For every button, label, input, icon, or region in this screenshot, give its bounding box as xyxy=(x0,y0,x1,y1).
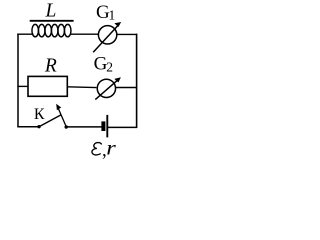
wire resistor to G2 xyxy=(67,86,96,89)
galvanometer G1 xyxy=(93,22,121,52)
wire bottom-left (to switch) xyxy=(17,126,38,128)
label R xyxy=(44,56,57,77)
wire mid-left (to resistor) xyxy=(17,85,28,87)
label G1 xyxy=(96,2,115,23)
svg-text:L: L xyxy=(44,1,56,22)
switch K xyxy=(37,104,68,129)
wire top-left (to inductor) xyxy=(17,33,33,35)
inductor L xyxy=(30,21,74,37)
wire battery to right vertical xyxy=(108,126,137,128)
svg-text:r: r xyxy=(106,137,116,159)
wire switch to battery xyxy=(66,126,101,128)
label K xyxy=(34,106,45,123)
label L xyxy=(44,1,56,22)
wire inductor to G1 xyxy=(71,33,98,35)
resistor R xyxy=(28,76,67,96)
label G2 xyxy=(94,54,113,75)
label E, r (script E drawn as path) xyxy=(92,137,116,161)
svg-text:R: R xyxy=(44,56,57,77)
wire left vertical xyxy=(17,34,19,128)
wire G2 to right vertical xyxy=(116,87,137,89)
svg-text:1: 1 xyxy=(109,8,116,23)
wire right vertical xyxy=(136,34,138,128)
battery E,r xyxy=(101,115,107,137)
svg-text:К: К xyxy=(34,106,45,123)
svg-text:2: 2 xyxy=(106,59,113,74)
galvanometer G2 xyxy=(95,77,121,99)
wire G1 to right vertical xyxy=(117,33,137,35)
